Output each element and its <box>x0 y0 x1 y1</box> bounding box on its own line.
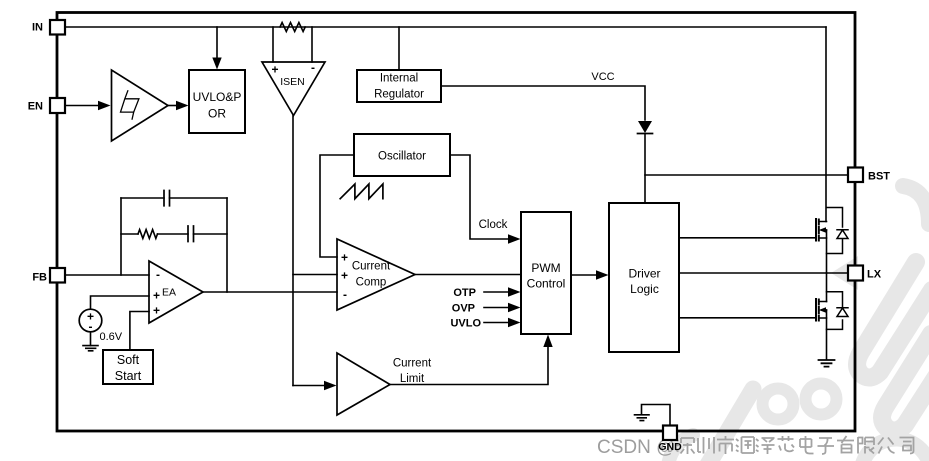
arrow Q1 body <box>819 227 826 233</box>
wire Q2 source to gnd <box>826 310 828 360</box>
op-amp ISEN <box>262 62 325 116</box>
wire OVP arrow <box>484 307 508 309</box>
wire osc to clock <box>450 155 508 239</box>
pin EN <box>50 98 65 113</box>
svg-text:PWM: PWM <box>531 261 560 275</box>
wire Q2 drain bus <box>826 273 828 302</box>
svg-text:Comp: Comp <box>356 277 387 289</box>
wire ISEN output down <box>292 116 294 386</box>
wire UVLO arrow <box>484 322 508 324</box>
hysteresis symbol <box>121 91 139 119</box>
pin BST <box>848 168 863 183</box>
svg-text:Soft: Soft <box>117 353 140 367</box>
svg-text:FB: FB <box>32 272 47 284</box>
block PWM Control <box>521 212 571 334</box>
wire comp network right <box>226 198 228 292</box>
svg-text:VCC: VCC <box>591 71 614 83</box>
svg-text:Oscillator: Oscillator <box>378 151 426 163</box>
wire UVLO arrow stem <box>216 27 218 62</box>
svg-text:Limit: Limit <box>400 373 425 385</box>
arrow into UVLO top <box>212 58 221 70</box>
svg-text:EN: EN <box>28 101 43 113</box>
svg-text:EA: EA <box>162 287 176 299</box>
wire comp top branch <box>121 197 227 199</box>
svg-text:-: - <box>89 320 93 334</box>
wire EN to schmitt <box>65 105 99 107</box>
block Driver Logic <box>609 203 679 352</box>
wire comp network left <box>120 198 122 275</box>
wire regulator input <box>398 27 400 70</box>
ground vref <box>83 346 98 351</box>
svg-text:-: - <box>156 268 160 282</box>
wire IN net vertical to high-side drain <box>825 27 827 222</box>
op-amp Current Comp <box>337 239 415 310</box>
wire BST net <box>645 174 848 176</box>
voltage source V 0.6V <box>79 309 102 332</box>
wire Q1 drain/source bus <box>826 230 828 273</box>
diode D2 body high <box>827 208 849 254</box>
capacitor C1 <box>164 191 170 206</box>
svg-text:LX: LX <box>867 269 882 281</box>
svg-text:BST: BST <box>868 171 890 183</box>
svg-text:+: + <box>341 269 348 283</box>
block Internal Regulator <box>357 70 441 102</box>
svg-text:+: + <box>153 289 160 303</box>
svg-text:+: + <box>153 304 160 318</box>
arrow schmitt to UVLO <box>176 101 189 110</box>
resistor Rsen <box>280 23 305 32</box>
pin LX <box>848 266 863 281</box>
svg-text:UVLO&P: UVLO&P <box>193 90 242 104</box>
diagonal light watermark <box>668 186 929 461</box>
svg-text:+: + <box>271 63 278 77</box>
arrow ISEN to current limit <box>324 381 337 390</box>
wire VCC <box>441 86 645 120</box>
wire low gate <box>679 317 816 319</box>
block UVLO&POR <box>189 70 245 133</box>
pin squares <box>50 20 863 440</box>
wire comp out to PWM <box>415 274 521 276</box>
transistor Q2 low-side <box>816 299 819 321</box>
pseudo CJK watermark glyphs <box>676 436 914 454</box>
wire vref to gnd <box>90 332 92 346</box>
wire ISEN to comp + <box>293 274 337 276</box>
wire high gate <box>679 237 816 239</box>
op-amp Current Limit <box>337 353 390 415</box>
op-amp EA <box>149 261 203 323</box>
svg-text:Clock: Clock <box>479 219 508 231</box>
svg-text:0.6V: 0.6V <box>100 331 123 343</box>
wire GND pin net <box>642 405 671 426</box>
block Oscillator <box>354 134 450 176</box>
ground Q2 <box>819 360 835 367</box>
arrow OVP <box>508 303 521 312</box>
wire current limit to PWM <box>390 342 548 385</box>
svg-text:-: - <box>311 61 315 75</box>
sawtooth waveform <box>340 184 383 199</box>
wire FB net <box>65 274 149 276</box>
svg-text:UVLO: UVLO <box>450 318 481 330</box>
pin IN <box>50 20 65 35</box>
diode D1 body <box>638 121 652 133</box>
arrow current limit to PWM <box>543 335 552 348</box>
wire IN net top <box>65 26 826 28</box>
block Soft Start <box>103 350 153 384</box>
wire OTP arrow <box>484 291 508 293</box>
svg-text:Driver: Driver <box>629 267 661 281</box>
svg-text:Current: Current <box>352 261 391 273</box>
diode D3 body low <box>827 292 849 330</box>
diode D1 <box>638 133 653 135</box>
transistor Q1 high-side <box>816 219 819 241</box>
wire osc to comp <box>320 155 354 257</box>
pin GND <box>663 426 677 441</box>
wire ISEN to current limit <box>293 385 324 387</box>
schmitt trigger buffer <box>112 70 169 141</box>
watermark wedge near LX <box>831 256 858 290</box>
svg-text:Regulator: Regulator <box>374 89 424 101</box>
ground GND pin <box>635 415 650 421</box>
resistor R1 <box>138 230 157 239</box>
svg-text:-: - <box>343 288 347 302</box>
svg-text:Start: Start <box>115 369 142 383</box>
pin FB <box>50 268 65 283</box>
wire comp mid branch <box>121 233 227 235</box>
chip outline border <box>57 13 855 432</box>
capacitor C2 <box>188 226 194 242</box>
svg-text:OTP: OTP <box>453 287 476 299</box>
svg-text:IN: IN <box>32 22 43 34</box>
wire diode to driver <box>644 134 646 203</box>
wire soft start to EA <box>130 312 149 351</box>
svg-text:Control: Control <box>527 277 566 291</box>
wire PWM to driver <box>571 274 596 276</box>
svg-text:GND: GND <box>658 441 682 453</box>
wire EA out to comp - <box>203 291 337 293</box>
wire ISEN- <box>311 27 313 62</box>
arrow PWM to driver <box>596 270 609 279</box>
svg-text:Internal: Internal <box>380 73 418 85</box>
svg-text:+: + <box>341 251 348 265</box>
svg-text:OR: OR <box>208 107 226 121</box>
arrow UVLO <box>508 318 521 327</box>
arrow EN to schmitt <box>98 101 111 110</box>
wire LX net <box>679 272 848 274</box>
svg-text:ISEN: ISEN <box>280 76 305 88</box>
svg-text:Current: Current <box>393 358 432 370</box>
wire vref to EA <box>91 296 150 309</box>
arrow OTP <box>508 287 521 296</box>
wire schmitt to UVLO box <box>168 105 177 107</box>
svg-text:Logic: Logic <box>630 282 659 296</box>
arrow clock to PWM <box>508 234 521 243</box>
filled arrowheads and diode triangles <box>98 58 826 391</box>
wire ISEN+ <box>272 27 274 62</box>
svg-text:OVP: OVP <box>452 303 475 315</box>
arrow Q2 body <box>819 307 826 313</box>
